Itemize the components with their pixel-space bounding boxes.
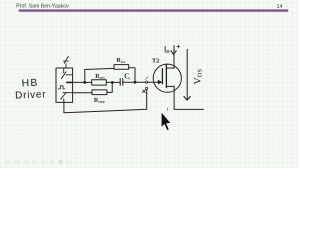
resistor Roff — [92, 90, 107, 95]
current arrow Id (chevron) — [171, 51, 176, 55]
svg-text:14: 14 — [276, 4, 282, 10]
svg-text:Prof. Sam Ben-Yaakov: Prof. Sam Ben-Yaakov — [16, 3, 69, 9]
wire Ron to Cc — [106, 81, 120, 83]
purple header rule — [19, 9, 289, 11]
driver box U1 — [56, 68, 73, 102]
label Vds (rotated) — [193, 69, 204, 85]
node C junction dot — [134, 81, 137, 84]
svg-text:Driver: Driver — [15, 90, 47, 102]
svg-text:VDS: VDS — [193, 69, 204, 85]
svg-text:GS: GS — [121, 60, 126, 64]
drain wire up — [173, 46, 175, 69]
label Roff — [94, 98, 105, 104]
faint bottom toolbar icons — [6, 160, 72, 165]
T2 channel bar — [165, 65, 167, 88]
svg-text:c: c — [129, 76, 131, 80]
label HB Driver (handwritten) — [15, 77, 47, 101]
svg-text:OFF: OFF — [98, 100, 105, 104]
svg-text:T2: T2 — [152, 57, 159, 64]
probe squiggle — [145, 77, 148, 80]
wire Cc to node C — [123, 81, 135, 83]
T2 source stub — [166, 85, 174, 87]
capacitor Cc — [120, 79, 123, 86]
label Cc — [124, 74, 130, 81]
Roff branch: wire from driver — [73, 92, 92, 94]
driver internal low-side switch — [61, 92, 73, 102]
Vds arrowhead (chevron) — [184, 96, 190, 100]
source wire down and right — [174, 86, 204, 109]
svg-text:ON: ON — [100, 76, 106, 80]
supply arrow above driver — [64, 56, 69, 68]
wire driver output to Ron — [73, 81, 92, 83]
Rgs branch: left riser — [84, 70, 86, 83]
driver internal high-side switch — [61, 68, 72, 79]
svg-text:D: D — [166, 49, 169, 54]
Rgs branch: top rail right and right riser — [129, 68, 135, 83]
Roff branch: wire and riser to node B — [107, 82, 112, 92]
node B junction dot — [111, 81, 114, 84]
probe point (gate) open circle — [146, 81, 148, 83]
T2 drain stub — [166, 67, 174, 69]
resistor Ron — [92, 80, 107, 85]
wire probe to gate arrow — [148, 81, 159, 83]
node A junction dot — [83, 81, 86, 84]
driver output stub (thick) — [67, 81, 73, 83]
label Rgs — [116, 58, 125, 64]
return wire: probe down, across bottom, up to driver — [64, 90, 147, 113]
probe x mark — [143, 90, 146, 93]
tiny tick at source corner — [166, 108, 169, 111]
wire node C to gate probe — [135, 81, 146, 83]
mouse cursor — [161, 112, 171, 131]
label Id — [164, 44, 170, 54]
svg-text:HB: HB — [21, 77, 38, 89]
T2 gate bar — [161, 69, 163, 84]
resistor Rgs — [114, 65, 129, 70]
probe point (source side) open circle — [146, 87, 148, 89]
transistor T2 body circle — [153, 64, 181, 92]
plus sign of Vds — [177, 45, 180, 48]
gate arrow of T2 — [158, 80, 162, 85]
Rgs branch: top rail left — [85, 68, 114, 69]
Vds measure line — [186, 49, 188, 99]
label Ron — [95, 74, 105, 80]
driver internal pulse symbol — [58, 86, 65, 89]
